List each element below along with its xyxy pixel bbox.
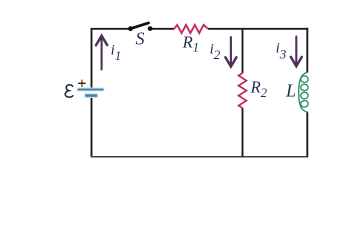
resistor R2 xyxy=(239,73,247,108)
resistor R1 xyxy=(174,25,208,33)
current arrow i3 (down) xyxy=(291,37,302,67)
wire: middle branch top (junction to R2) xyxy=(242,29,244,73)
svg-text:S: S xyxy=(136,29,145,49)
wire: top-left horizontal (corner to switch left contact) xyxy=(91,28,131,30)
label EMF script-E xyxy=(65,85,73,97)
wire: left branch top (battery to top-left corner) xyxy=(91,28,93,89)
inductor L (coil) xyxy=(299,72,308,112)
wire: right branch top (top-right corner down to inductor) xyxy=(306,28,308,73)
wire: middle branch bottom (R2 to bottom wire) xyxy=(242,108,244,157)
wire: R1 right lead to top-right corner xyxy=(208,28,308,30)
svg-text:i1: i1 xyxy=(111,42,122,63)
svg-text:R1: R1 xyxy=(182,32,199,54)
svg-text:i2: i2 xyxy=(210,41,221,62)
switch S xyxy=(128,23,152,31)
current arrow i1 (up) xyxy=(96,36,107,70)
battery EMF source xyxy=(77,88,105,99)
wire: switch right contact to R1 left lead xyxy=(150,28,175,30)
svg-text:L: L xyxy=(285,80,296,100)
current arrow i2 (down) xyxy=(225,37,236,67)
wire: right branch bottom (inductor to bottom-right corner) xyxy=(306,112,308,158)
wire: bottom horizontal xyxy=(91,156,309,158)
svg-text:i3: i3 xyxy=(276,41,287,62)
battery plus sign xyxy=(78,80,85,87)
wire: left branch bottom (battery to bottom-left corner) xyxy=(91,95,93,157)
svg-text:R2: R2 xyxy=(250,77,267,100)
